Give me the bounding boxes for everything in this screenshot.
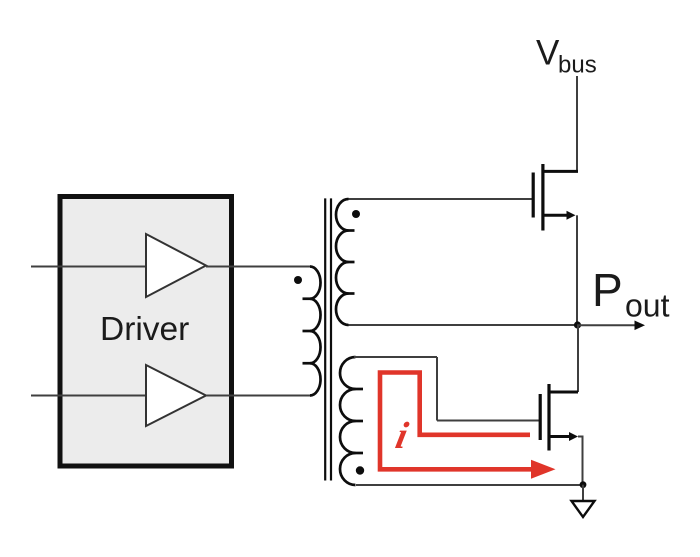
buffer A1 — [146, 234, 206, 297]
wire input bottom — [31, 395, 146, 397]
svg-text:P: P — [592, 264, 623, 316]
transistor Q1 drain lead — [543, 170, 578, 173]
wire Vbus to drain of Q1 — [576, 76, 578, 171]
arrowhead Pout — [635, 321, 646, 331]
upper secondary cusp tail 1 — [348, 229, 355, 232]
transformer core line right — [330, 198, 332, 480]
wire Q1 source down to Pout node — [576, 215, 578, 325]
upper secondary cusp tail 3 — [348, 292, 355, 295]
transformer T1 secondary winding upper — [336, 199, 349, 325]
transformer T1 primary winding — [310, 267, 321, 396]
transistor Q2 drain lead — [549, 391, 578, 394]
lower secondary cusp tail 2 — [355, 420, 363, 423]
transformer core line left — [324, 198, 326, 480]
transistor Q1 source lead — [543, 214, 568, 217]
upper secondary cusp tail 2 — [348, 261, 355, 264]
wire secondary upper to gate of Q1 — [349, 198, 534, 200]
lower secondary cusp tail 1 — [355, 388, 363, 391]
primary cusp tail 3 — [303, 362, 311, 365]
wire secondary lower bottom to ground node — [356, 484, 583, 486]
transistor Q1 channel bar — [541, 164, 544, 231]
svg-text:out: out — [625, 288, 670, 324]
node Pout junction dot — [574, 321, 581, 328]
primary cusp tail 1 — [303, 297, 311, 300]
polarity dot primary — [294, 276, 302, 284]
svg-text:V: V — [536, 34, 560, 73]
current loop arrowhead — [531, 460, 556, 479]
wire ground stub — [582, 485, 584, 501]
svg-text:bus: bus — [558, 52, 597, 79]
svg-text:i: i — [392, 415, 412, 457]
svg-text:Driver: Driver — [100, 311, 189, 348]
transistor Q2 gate bar — [539, 394, 542, 440]
wire to gate of Q2 — [437, 420, 540, 422]
wire down to gate level of Q2 — [436, 357, 438, 421]
transistor Q2 source lead — [549, 435, 570, 438]
polarity dot secondary lower — [356, 466, 364, 474]
buffer A2 — [146, 365, 206, 426]
transistor Q1 source arrow — [567, 211, 576, 220]
wire Pout node down to drain of Q2 — [577, 325, 579, 392]
wire Q2 source down — [578, 437, 583, 485]
driver box U1 — [60, 197, 232, 467]
transformer T1 secondary winding lower — [340, 357, 356, 485]
wire input top — [31, 266, 146, 268]
wire Pout output arrow line — [577, 324, 637, 326]
node ground junction dot — [580, 481, 587, 488]
lower secondary cusp tail 3 — [355, 452, 363, 455]
primary cusp tail 2 — [303, 330, 311, 333]
wire secondary lower top — [354, 356, 437, 358]
ground symbol — [572, 501, 595, 517]
polarity dot secondary upper — [352, 210, 360, 218]
current loop i (red path) — [380, 373, 537, 470]
wire buffer A2 to primary — [206, 395, 310, 397]
wire buffer A1 to primary — [206, 266, 310, 268]
transistor Q1 gate bar — [532, 173, 535, 218]
transistor Q2 channel bar — [547, 384, 550, 451]
transistor Q2 source arrow — [569, 432, 578, 441]
wire secondary upper bottom to Pout node — [349, 324, 578, 326]
